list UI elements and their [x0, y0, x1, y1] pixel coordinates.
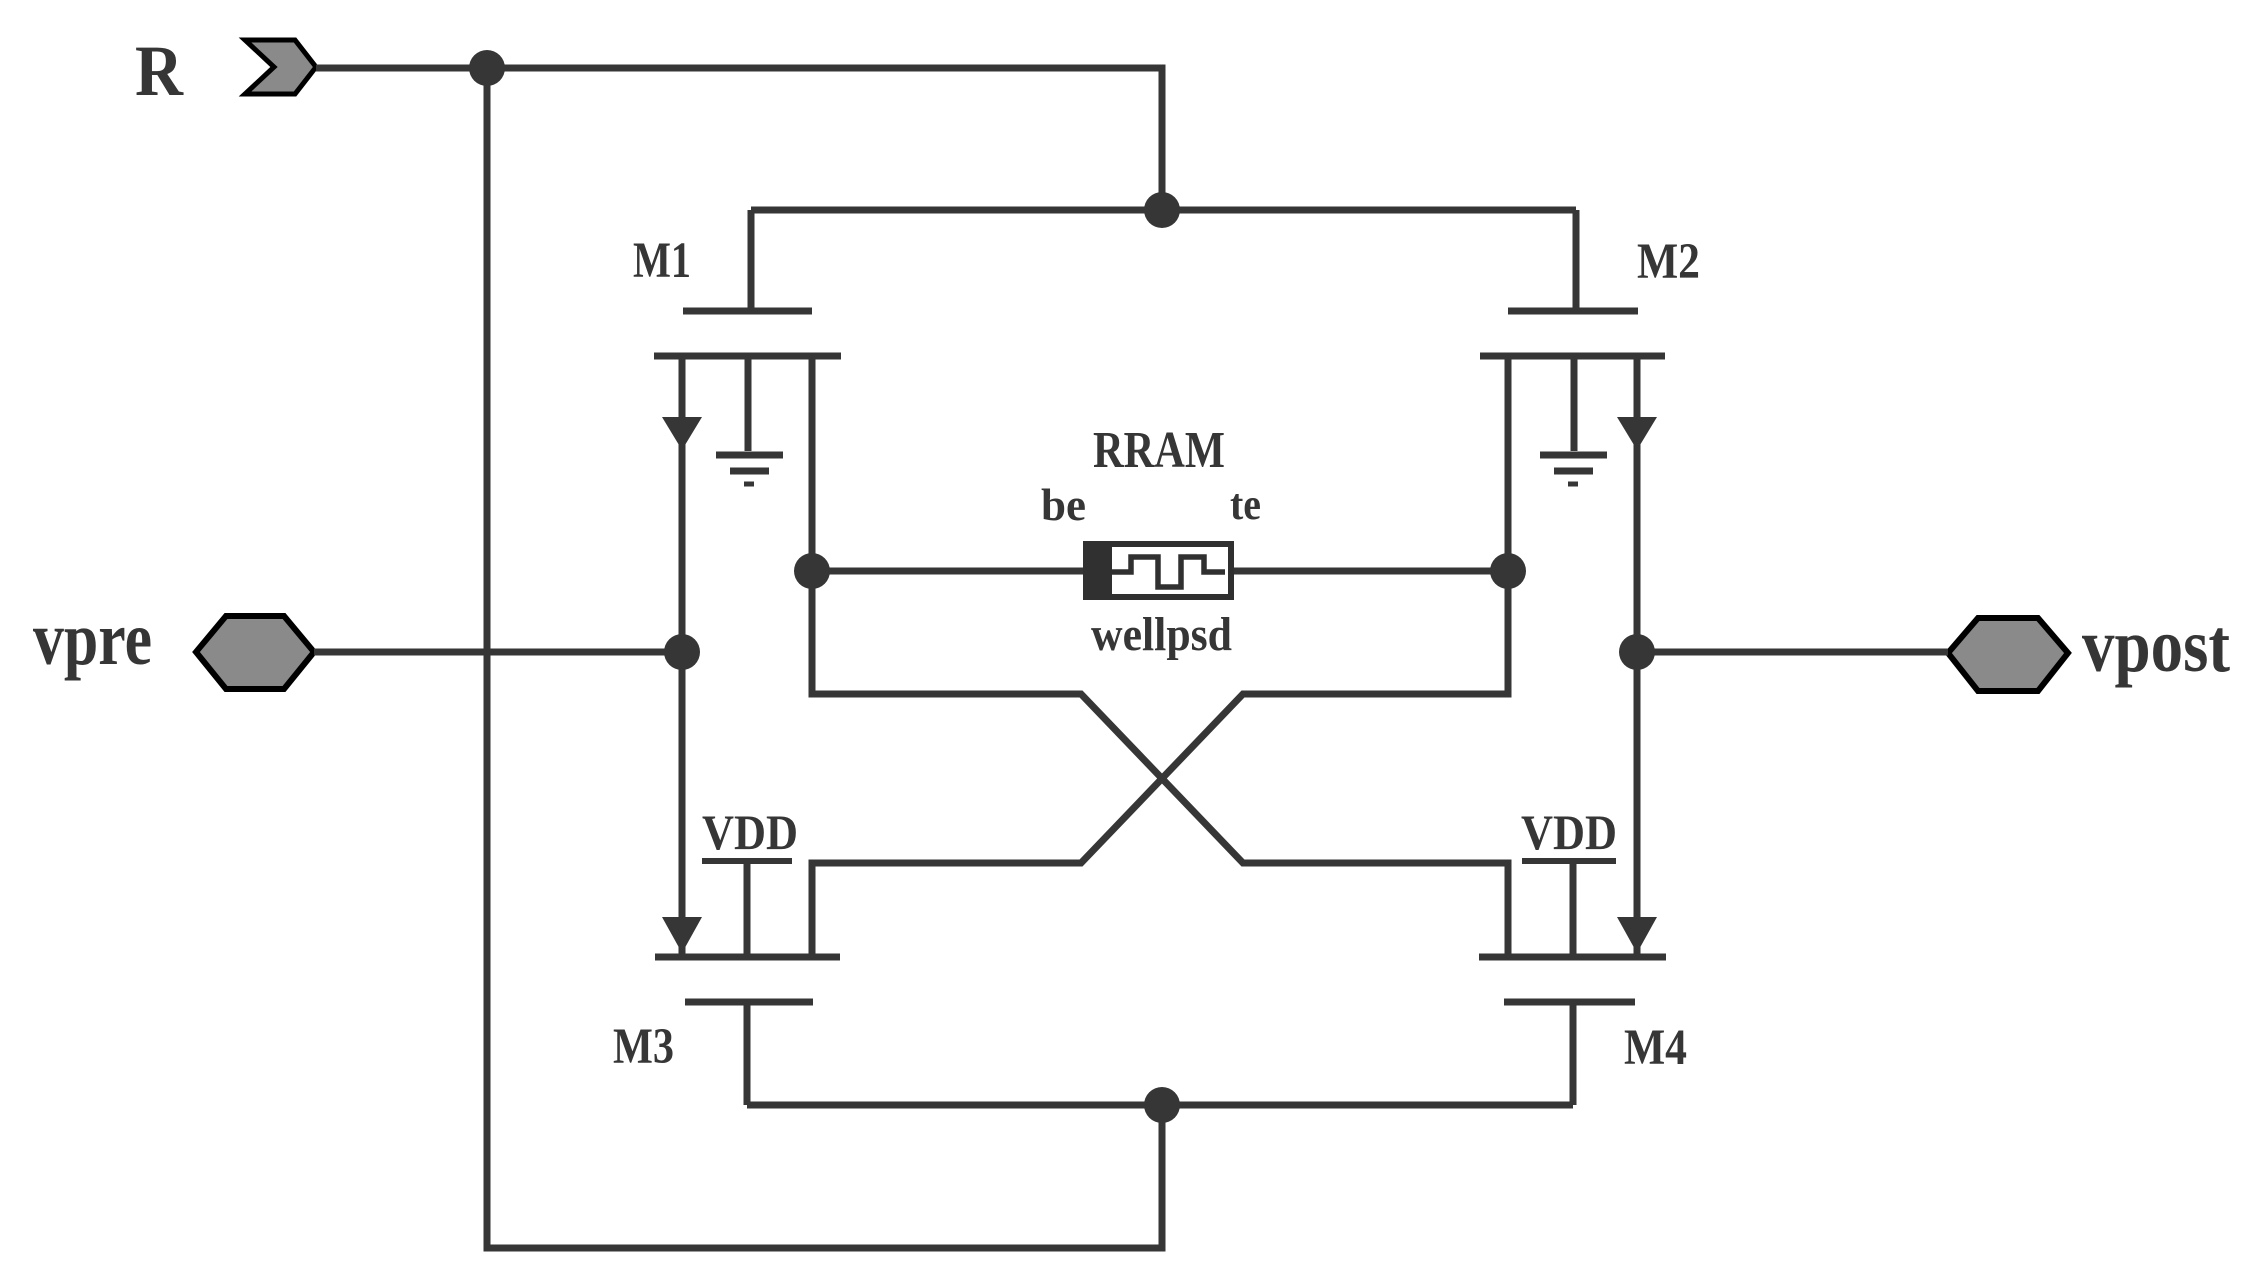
- svg-text:VDD: VDD: [702, 804, 798, 860]
- VDD left stem: [744, 861, 751, 957]
- transistor M2 bulk stem: [1571, 356, 1578, 451]
- wire M2 source to M4 drain with arrow: [1634, 652, 1641, 957]
- transistor M4 arrow: [1617, 917, 1657, 953]
- transistor M4 gate bar: [1504, 999, 1635, 1006]
- VDD right stem: [1570, 861, 1577, 957]
- ground symbol left: [716, 455, 783, 484]
- wire vpre: [314, 649, 682, 656]
- wire R feedback loop left-bottom: [487, 68, 1162, 1248]
- transistor M2 channel bar: [1480, 353, 1665, 360]
- transistor M3 arrow: [662, 917, 702, 953]
- VDD right underline: [1522, 858, 1616, 864]
- transistor M1 arrow: [662, 417, 702, 450]
- wire cross-couple be to M4: [812, 571, 1508, 957]
- wire RRAM right lead: [1231, 568, 1508, 575]
- ground symbol right: [1540, 455, 1607, 484]
- transistor M1 source wire with arrow: [679, 356, 686, 652]
- transistor M1 bulk stem: [745, 356, 752, 451]
- node be junction dot: [794, 553, 830, 589]
- svg-text:M3: M3: [613, 1019, 674, 1075]
- transistor M2 drain wire: [1505, 356, 1512, 571]
- io pin hexagon vpost: [1948, 618, 2068, 691]
- transistor M1 drain wire: [809, 356, 816, 571]
- svg-text:vpost: vpost: [2082, 604, 2230, 688]
- transistor M1 channel bar: [654, 353, 841, 360]
- wire vpost: [1637, 649, 1948, 656]
- node te junction dot: [1490, 553, 1526, 589]
- input pin chevron R: [245, 40, 316, 94]
- transistor M1 gate stem: [748, 210, 755, 311]
- svg-text:te: te: [1230, 480, 1261, 529]
- svg-text:vpre: vpre: [33, 597, 152, 681]
- svg-text:R: R: [135, 31, 184, 111]
- transistor M2 arrow: [1617, 417, 1657, 450]
- transistor M4 channel bar: [1479, 954, 1666, 961]
- junction node vpre: [664, 634, 700, 670]
- transistor M4 gate stem: [1570, 1002, 1577, 1105]
- transistor M1 gate bar: [683, 308, 812, 315]
- svg-text:M4: M4: [1624, 1020, 1687, 1076]
- wire M1 source to M3 drain with arrow: [679, 652, 686, 957]
- svg-text:RRAM: RRAM: [1093, 422, 1225, 479]
- transistor M3 gate stem: [744, 1002, 751, 1105]
- wire R to top rail: [316, 68, 1162, 210]
- svg-text:VDD: VDD: [1521, 804, 1617, 860]
- svg-text:be: be: [1041, 479, 1086, 530]
- junction node R feedback: [469, 50, 505, 86]
- wire cross-couple te to M3: [812, 571, 1508, 957]
- transistor M2 source wire with arrow: [1634, 356, 1641, 652]
- wire bottom gate rail: [747, 1102, 1573, 1109]
- wire RRAM left lead: [812, 568, 1086, 575]
- svg-text:M1: M1: [633, 233, 691, 289]
- wire top gate rail: [751, 207, 1576, 214]
- junction node bottom rail: [1144, 1087, 1180, 1123]
- transistor M3 gate bar: [685, 999, 813, 1006]
- io pin hexagon vpre: [196, 616, 314, 689]
- transistor M3 channel bar: [655, 954, 840, 961]
- transistor M2 gate stem: [1573, 210, 1580, 311]
- RRAM memristor body: [1086, 544, 1231, 597]
- transistor M2 gate bar: [1508, 308, 1638, 315]
- junction node vpost: [1619, 634, 1655, 670]
- VDD left underline: [702, 858, 792, 864]
- junction node top rail: [1144, 192, 1180, 228]
- svg-text:M2: M2: [1637, 234, 1700, 290]
- svg-text:wellpsd: wellpsd: [1091, 608, 1232, 661]
